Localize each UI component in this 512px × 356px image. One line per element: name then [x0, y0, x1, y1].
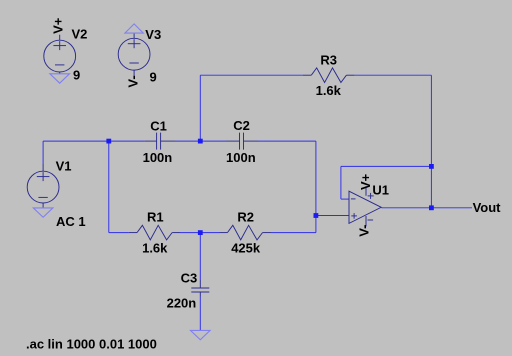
svg-text:V2: V2 — [72, 27, 88, 42]
node junction B — [198, 139, 203, 144]
svg-text:9: 9 — [73, 68, 80, 83]
wire output to Vout — [431, 207, 472, 209]
wire opamp output — [382, 207, 432, 209]
ground flag of V1 — [33, 208, 53, 217]
capacitor C3 — [191, 280, 209, 297]
node junction D — [314, 213, 319, 218]
wire node B up — [199, 75, 201, 141]
wire R3 to right column — [354, 74, 431, 76]
wire V1 top vertical — [42, 141, 44, 164]
wire node D to noninverting input — [316, 215, 349, 217]
power flag (inverted ground) of V3 — [125, 24, 143, 33]
node junction F — [429, 205, 434, 210]
wire C1 to node B — [175, 140, 200, 142]
svg-text:1.6k: 1.6k — [142, 240, 168, 255]
svg-text:U1: U1 — [372, 183, 389, 198]
wire C3 to ground — [199, 297, 201, 331]
svg-text:R1: R1 — [147, 210, 164, 225]
resistor R1 — [129, 225, 180, 240]
node junction E — [429, 164, 434, 169]
ground flag of C3 — [191, 330, 211, 339]
wire right of C2 down — [315, 141, 317, 233]
wire right column vertical — [430, 75, 432, 208]
wire node A down — [108, 141, 110, 233]
wire R2 to vertical — [271, 232, 316, 234]
svg-text:9: 9 — [150, 70, 157, 85]
wire node C down to C3 — [199, 233, 201, 280]
resistor R3 — [303, 68, 354, 83]
wire node A to C1 — [109, 140, 145, 142]
ground flag of V2 — [50, 72, 70, 83]
svg-text:100n: 100n — [226, 150, 256, 165]
svg-text:V-: V- — [126, 75, 141, 87]
wire feedback to inverting input — [341, 198, 349, 200]
svg-text:1.6k: 1.6k — [316, 83, 342, 98]
svg-text:.ac lin 1000 0.01 1000: .ac lin 1000 0.01 1000 — [26, 337, 157, 352]
svg-text:AC 1: AC 1 — [56, 214, 86, 229]
wire to R1 left — [109, 232, 129, 234]
voltage source V3 — [118, 33, 150, 76]
wire feedback horizontal — [341, 165, 432, 167]
wire node B to C2 — [200, 140, 226, 142]
svg-text:100n: 100n — [143, 150, 173, 165]
svg-text:425k: 425k — [231, 240, 261, 255]
capacitor C2 — [226, 133, 258, 150]
svg-text:C1: C1 — [150, 118, 167, 133]
node junction A — [106, 139, 111, 144]
svg-text:Vout: Vout — [473, 200, 502, 215]
svg-text:V3: V3 — [145, 27, 161, 42]
node junction C — [198, 230, 203, 235]
svg-text:R2: R2 — [237, 210, 254, 225]
svg-text:220n: 220n — [167, 295, 197, 310]
resistor R2 — [220, 225, 272, 240]
voltage source V1 — [27, 164, 59, 208]
wire C2 right — [258, 140, 316, 142]
svg-text:C3: C3 — [181, 271, 198, 286]
svg-text:V-: V- — [357, 225, 372, 237]
wire feedback vertical — [340, 166, 342, 199]
wire R1 to R2 — [180, 232, 220, 234]
capacitor C1 — [145, 133, 175, 150]
svg-text:V+: V+ — [50, 17, 65, 34]
svg-text:V+: V+ — [358, 173, 373, 190]
wire V1 to node A — [43, 140, 109, 142]
wire top row to R3 — [200, 74, 303, 76]
svg-text:R3: R3 — [320, 53, 337, 68]
svg-text:V1: V1 — [56, 158, 72, 173]
svg-text:C2: C2 — [233, 118, 250, 133]
op-amp U1 — [349, 186, 381, 226]
voltage source V2 — [44, 35, 76, 72]
